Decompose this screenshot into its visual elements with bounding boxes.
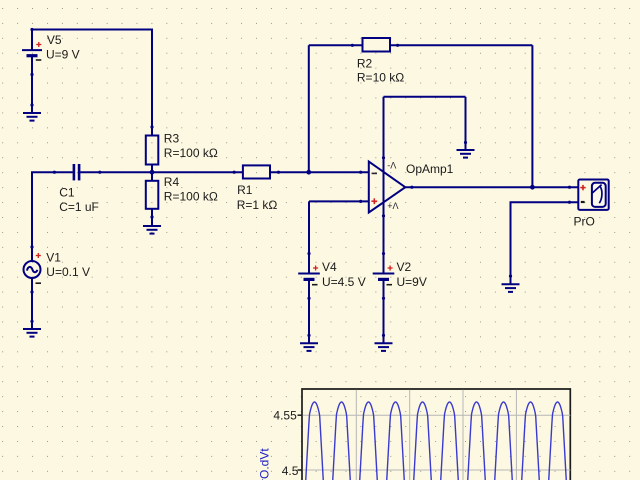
- pin node right ground: [464, 141, 467, 144]
- pin node V5 ground: [30, 103, 33, 106]
- svg-text:U=4.5 V: U=4.5 V: [322, 275, 366, 289]
- C1 value: [59, 200, 99, 214]
- pin node V2 top: [382, 252, 385, 255]
- V1 label: [46, 250, 61, 264]
- svg-text:R1: R1: [237, 183, 253, 197]
- svg-text:U=9 V: U=9 V: [46, 48, 80, 62]
- ground under V5: [23, 113, 41, 121]
- pin node V4 bottom: [307, 297, 310, 300]
- wire V2 bottom to ground: [383, 279, 385, 343]
- R2 value: [357, 70, 404, 84]
- ground under R4: [143, 226, 161, 234]
- op-amp V+ pin label: [387, 201, 398, 211]
- wire opamp top pin to right ground horizontal: [384, 96, 466, 98]
- R2 label: [357, 57, 373, 71]
- wire down to right ground: [465, 97, 467, 150]
- ground under V1: [23, 329, 41, 337]
- V4 label: [322, 260, 337, 274]
- svg-text:R=10 kΩ: R=10 kΩ: [357, 70, 404, 84]
- V5 minus mark: [36, 59, 42, 61]
- resistor R2: [363, 38, 391, 52]
- wire R4 bottom to ground: [151, 209, 153, 226]
- pin node R4 bottom: [150, 215, 153, 218]
- V2 plus mark: [388, 266, 393, 271]
- pin node V1 top: [30, 245, 33, 248]
- junction node at inverting input branch: [306, 170, 311, 175]
- PrO minus mark: [581, 201, 585, 203]
- wire C1 to R1: [80, 171, 243, 173]
- battery V4: [298, 274, 320, 280]
- battery V5: [22, 50, 42, 56]
- axis label 4.5: [282, 464, 299, 478]
- svg-text:PrO.dVt: PrO.dVt: [258, 448, 272, 480]
- wire R1 to opamp inverting input: [270, 171, 369, 173]
- wire opamp noninverting input horizontal: [309, 200, 369, 202]
- op-amp noninverting input mark: [371, 198, 377, 204]
- ground under V2: [375, 343, 393, 351]
- pin node V1 bottom: [30, 290, 33, 293]
- diagram horizontal gridline 4.55: [303, 414, 571, 416]
- pin node PrO plus: [568, 186, 571, 189]
- axis tick 4.5: [298, 469, 303, 471]
- capacitor C1: [74, 164, 79, 180]
- diagram horizontal gridline 4.5: [303, 469, 571, 471]
- svg-text:R=1 kΩ: R=1 kΩ: [237, 198, 278, 212]
- wire R2 right horizontal: [390, 44, 532, 46]
- PrO plus mark: [580, 185, 585, 190]
- svg-text:R2: R2: [357, 57, 373, 71]
- junction node at output branch: [530, 185, 535, 190]
- pin node V2 bottom: [382, 297, 385, 300]
- C1 label: [59, 185, 75, 199]
- svg-text:R=100 kΩ: R=100 kΩ: [164, 146, 218, 160]
- pin node opamp noninverting: [359, 200, 362, 203]
- V5 label: [47, 33, 62, 47]
- svg-text:V1: V1: [46, 250, 61, 264]
- axis label 4.55: [273, 409, 297, 423]
- svg-text:+Λ: +Λ: [387, 201, 398, 211]
- V4 value: [322, 275, 366, 289]
- ground under PrO: [502, 284, 520, 292]
- OpAmp1 label: [406, 162, 454, 176]
- pin node V2 ground: [382, 334, 385, 337]
- R3 value: [164, 146, 218, 160]
- diagram frame: [302, 389, 570, 480]
- V1 minus mark: [36, 282, 42, 284]
- pin node opamp inverting: [359, 171, 362, 174]
- op-amp U1 triangle: [369, 162, 406, 213]
- resistor R1: [243, 165, 270, 178]
- V1 plus mark: [36, 253, 41, 258]
- wire opamp output to probe: [405, 186, 578, 188]
- V2 label: [397, 260, 412, 274]
- svg-text:U=0.1 V: U=0.1 V: [46, 265, 90, 279]
- wire opamp power top through symbol to V2: [383, 97, 385, 274]
- svg-text:R4: R4: [164, 175, 180, 189]
- svg-text:V2: V2: [397, 260, 412, 274]
- V5 plus mark: [36, 42, 41, 47]
- axis tick 4.55: [298, 414, 303, 416]
- pin node opamp top power: [382, 156, 385, 159]
- op-amp V- pin label: [387, 160, 396, 170]
- svg-text:4.5: 4.5: [282, 464, 299, 478]
- pin node opamp bottom power: [382, 214, 385, 217]
- junction node at R3/R4 tap: [150, 170, 155, 175]
- R4 label: [164, 175, 180, 189]
- svg-text:R=100 kΩ: R=100 kΩ: [164, 190, 218, 204]
- pin node PrO ground: [509, 275, 512, 278]
- pin node V1 ground: [30, 320, 33, 323]
- voltage probe PrO: [578, 180, 608, 210]
- pin node opamp output: [410, 186, 413, 189]
- y axis name PrO.dVt: [258, 448, 272, 480]
- wire main input left segment to C1: [32, 172, 73, 260]
- PrO label: [574, 215, 595, 229]
- svg-text:U=9V: U=9V: [397, 275, 427, 289]
- pin node C1 left: [53, 171, 56, 174]
- wire V4 bottom to ground: [308, 279, 310, 343]
- svg-text:V5: V5: [47, 33, 62, 47]
- svg-text:R3: R3: [164, 132, 180, 146]
- pin node R2 right: [396, 44, 399, 47]
- V5 value U=9 V: [46, 48, 80, 62]
- op-amp inverting input mark: [372, 172, 377, 174]
- R1 label: [237, 183, 253, 197]
- svg-text:4.55: 4.55: [273, 409, 297, 423]
- pin node R2 left: [351, 44, 354, 47]
- wire V1 bottom to ground: [31, 279, 33, 330]
- wire feedback right vertical to output: [531, 45, 533, 187]
- diagram vertical gridlines: [356, 390, 516, 480]
- wire feedback left vertical: [308, 45, 310, 172]
- ac source V1: [24, 261, 41, 278]
- V2 value: [397, 275, 427, 289]
- pin node R1 right: [277, 171, 280, 174]
- V1 value: [46, 265, 90, 279]
- V4 minus mark: [312, 284, 318, 286]
- svg-text:C=1 uF: C=1 uF: [59, 200, 99, 214]
- wire R3 bottom to R4 top: [151, 165, 153, 181]
- pin node R1 left: [233, 171, 236, 174]
- svg-text:-Λ: -Λ: [387, 160, 396, 170]
- pin node C1 right: [98, 171, 101, 174]
- waveform curve: [302, 402, 569, 480]
- svg-text:PrO: PrO: [574, 215, 595, 229]
- V2 minus mark: [387, 284, 393, 286]
- wire noninverting input down to V4: [308, 201, 310, 273]
- pin node V5 bottom: [30, 73, 33, 76]
- pin node V4 top: [307, 252, 310, 255]
- wire V5 top to R3 branch: [32, 30, 152, 136]
- resistor R4: [146, 181, 159, 209]
- svg-text:C1: C1: [59, 185, 75, 199]
- wire V5 bottom to ground: [31, 56, 33, 113]
- wire R2 left horizontal: [309, 44, 363, 46]
- pin node V5 top corner: [30, 28, 33, 31]
- wire probe minus to ground: [511, 202, 579, 284]
- resistor R3: [146, 136, 159, 165]
- pin node PrO minus: [568, 201, 571, 204]
- R4 value: [164, 190, 218, 204]
- svg-text:V4: V4: [322, 260, 337, 274]
- R3 label: [164, 132, 180, 146]
- pin node V4 ground: [307, 334, 310, 337]
- ground under V4: [300, 343, 318, 351]
- R1 value: [237, 198, 278, 212]
- ground right of op-amp: [457, 150, 475, 158]
- svg-text:OpAmp1: OpAmp1: [406, 162, 454, 176]
- battery V2: [373, 274, 395, 280]
- V4 plus mark: [313, 266, 318, 271]
- pin node R3 top: [150, 125, 153, 128]
